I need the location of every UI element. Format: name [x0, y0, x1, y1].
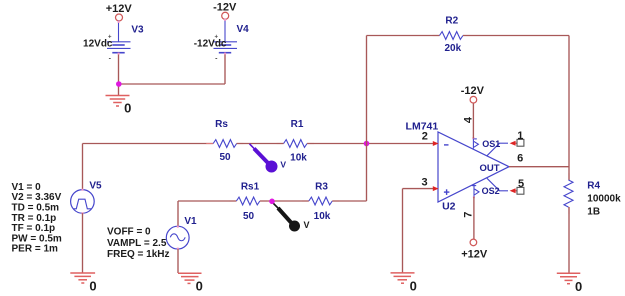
pin number 2 — [422, 130, 428, 142]
svg-text:V: V — [303, 220, 309, 230]
wire V1 top vertical — [177, 201, 179, 226]
op-amp minus sign — [444, 144, 449, 146]
label OUT — [479, 163, 499, 174]
OS1 arrow — [510, 141, 518, 146]
svg-text:OS2: OS2 — [482, 186, 500, 196]
wire bottom row segment 2 — [260, 200, 309, 202]
svg-text:0: 0 — [89, 279, 96, 294]
svg-text:-12V: -12V — [461, 85, 485, 97]
label R4 — [587, 180, 600, 191]
wire R2 loop right vertical — [568, 36, 570, 181]
ground 0 (top left) — [106, 96, 132, 116]
svg-text:1B: 1B — [587, 207, 600, 218]
svg-text:OS1: OS1 — [482, 139, 500, 149]
pin number 3 — [421, 177, 427, 189]
wire V4 bottom — [224, 54, 226, 85]
wire OUT — [509, 166, 569, 168]
svg-text:V: V — [280, 160, 286, 170]
svg-text:5: 5 — [518, 178, 524, 190]
wire V5 vertical top — [82, 144, 84, 190]
junction node 0 (V3/V4 ground tie) — [116, 81, 122, 87]
pin number 6 — [517, 152, 523, 164]
power symbol +12V (op-amp) — [461, 239, 488, 260]
pin 3 arrow — [433, 186, 439, 191]
svg-text:50: 50 — [219, 152, 231, 163]
svg-text:12Vdc: 12Vdc — [83, 38, 113, 49]
svg-text:R1: R1 — [291, 119, 304, 130]
svg-text:3: 3 — [421, 177, 427, 189]
wire R2 loop top right — [463, 35, 569, 37]
svg-text:Rs: Rs — [215, 119, 228, 130]
ground 0 (V5) — [70, 273, 96, 294]
label V5 — [89, 181, 102, 192]
wire R4 bottom — [568, 207, 570, 273]
V5 parameters — [12, 182, 62, 255]
OS2 arrow — [510, 188, 518, 193]
resistor R1 — [284, 140, 307, 148]
pin number 1 — [517, 130, 523, 142]
resistor R3 — [309, 197, 332, 205]
wire V1 bottom — [177, 249, 179, 273]
svg-text:VAMPL = 2.5: VAMPL = 2.5 — [107, 238, 167, 249]
wire V5 bottom — [82, 213, 84, 272]
svg-text:6: 6 — [517, 152, 523, 164]
wire R2 loop top left — [367, 35, 440, 37]
op-amp U2 triangle — [438, 132, 509, 202]
wire top row segment 1 — [83, 143, 214, 145]
ground 0 (op-amp pin3) — [391, 273, 417, 294]
svg-text:10k: 10k — [290, 153, 307, 164]
svg-text:Rs1: Rs1 — [241, 182, 260, 193]
ground 0 (V1, offset style) — [178, 273, 203, 293]
svg-text:2: 2 — [422, 130, 428, 142]
label U2 — [442, 201, 456, 213]
value 1B — [587, 207, 600, 218]
svg-text:U2: U2 — [442, 201, 456, 213]
wire pin4 — [472, 103, 474, 139]
value 50 (Rs) — [219, 152, 231, 163]
ground 0 (R4) — [557, 273, 582, 294]
resistor lead stubs (salmon pin ends) — [206, 36, 569, 215]
label Rs1 — [241, 182, 260, 193]
svg-text:V3: V3 — [131, 24, 144, 35]
svg-text:VOFF = 0: VOFF = 0 — [107, 227, 151, 238]
svg-text:0: 0 — [410, 279, 417, 294]
svg-text:PER = 1m: PER = 1m — [12, 244, 59, 255]
wire V3 bottom — [118, 54, 120, 96]
svg-text:1: 1 — [517, 130, 523, 142]
svg-text:V1: V1 — [184, 216, 197, 227]
op-amp plus sign — [444, 189, 450, 195]
svg-text:20k: 20k — [444, 43, 461, 54]
op-amp V+ power pin glyph (bottom) — [472, 185, 479, 197]
wire bottom row segment 1 — [178, 200, 236, 202]
pin number 4 (rotated) — [463, 116, 475, 123]
value 10k (R3) — [314, 211, 331, 222]
wire top row segment 3 — [307, 143, 433, 145]
value -12Vdc — [194, 38, 227, 49]
resistor Rs1 — [236, 197, 259, 205]
svg-text:R2: R2 — [445, 15, 458, 26]
svg-text:V5: V5 — [89, 181, 102, 192]
value 50 (Rs1) — [243, 211, 255, 222]
wire R2 loop left vertical — [366, 36, 368, 144]
wire V3 pin stub (blue) — [118, 21, 120, 42]
OS2 terminal square — [517, 187, 524, 194]
value 10000k — [587, 194, 621, 205]
svg-text:0: 0 — [196, 278, 203, 293]
source V1 (VSIN) — [166, 226, 189, 250]
op-amp V- power pin glyph (top) — [473, 139, 478, 149]
label OS1 — [482, 139, 500, 149]
OS2 pin stub — [487, 178, 508, 191]
svg-text:0: 0 — [124, 101, 131, 116]
svg-text:50: 50 — [243, 211, 255, 222]
svg-text:7: 7 — [462, 212, 474, 218]
battery V4 — [214, 34, 238, 62]
OS1 terminal square — [517, 139, 524, 146]
svg-text:FREQ = 1kHz: FREQ = 1kHz — [107, 249, 170, 260]
pin 2 arrow — [433, 141, 439, 146]
svg-text:R3: R3 — [315, 182, 328, 193]
power symbol -12V (V4 top) — [213, 2, 237, 20]
wire pin7 — [473, 197, 475, 240]
wire bottom row to summing node — [366, 144, 368, 202]
svg-text:-12Vdc: -12Vdc — [194, 38, 227, 49]
pin number 5 — [518, 178, 524, 190]
voltage probe V (black) — [274, 204, 310, 232]
label R3 — [315, 182, 328, 193]
voltage probe V (purple) — [250, 144, 287, 173]
value 10k (R1) — [290, 153, 307, 164]
label LM741 — [406, 120, 439, 132]
resistor R2 — [440, 32, 463, 40]
wire pin3 vertical to ground — [402, 189, 404, 273]
V1 parameters — [107, 227, 170, 261]
svg-text:10000k: 10000k — [587, 194, 621, 205]
svg-text:10k: 10k — [314, 211, 331, 222]
junction dot probe node — [269, 199, 275, 205]
resistor R4 (vertical) — [564, 180, 573, 207]
wire bottom row segment 3 — [332, 200, 366, 202]
value 20k — [444, 43, 461, 54]
resistor Rs — [213, 140, 236, 148]
label Rs — [215, 119, 228, 130]
pin number 7 (rotated) — [462, 212, 474, 218]
power symbol -12V (op-amp) — [461, 85, 485, 103]
value 12Vdc — [83, 38, 113, 49]
svg-text:+12V: +12V — [106, 3, 133, 15]
OS1 pin stub — [487, 143, 508, 156]
battery V3 — [107, 34, 131, 62]
svg-text:V4: V4 — [236, 24, 249, 35]
pin end markers (pink) — [118, 19, 475, 198]
svg-text:4: 4 — [463, 116, 475, 123]
svg-text:0: 0 — [575, 279, 582, 294]
junction dot summing node — [364, 141, 370, 147]
wire V4 pin stub (blue) — [224, 19, 226, 42]
label V3 — [131, 24, 144, 35]
svg-text:+12V: +12V — [461, 248, 488, 260]
label V4 — [236, 24, 249, 35]
wire pin3 horizontal — [403, 188, 434, 190]
label V1 — [184, 216, 197, 227]
label R2 — [445, 15, 458, 26]
power symbol +12V (V3 top) — [106, 3, 133, 21]
wire V3-V4 horizontal — [119, 83, 226, 85]
svg-text:R4: R4 — [587, 180, 600, 191]
wire top row segment 2 — [237, 143, 284, 145]
label OS2 — [482, 186, 500, 196]
label R1 — [291, 119, 304, 130]
source V5 (VPULSE) — [71, 189, 95, 215]
svg-text:OUT: OUT — [479, 163, 499, 174]
